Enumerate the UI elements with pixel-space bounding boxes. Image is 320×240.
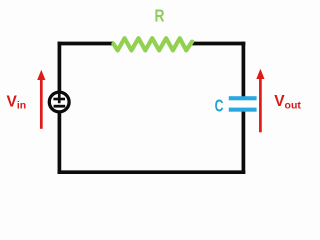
resistor R [113, 38, 192, 50]
wire top-left segment [58, 42, 114, 46]
capacitor C [229, 96, 257, 112]
wire left upper segment [58, 42, 62, 93]
Vin arrow [37, 70, 45, 129]
svg-text:R: R [155, 6, 165, 26]
wire top-right segment [191, 42, 246, 46]
wire bottom segment [58, 170, 246, 174]
wire right lower segment [242, 109, 246, 174]
svg-text:Vout: Vout [274, 93, 301, 111]
voltage source V1 [49, 92, 69, 112]
Vout arrow [256, 69, 264, 133]
svg-text:C: C [215, 96, 224, 116]
wire right upper segment [242, 42, 246, 97]
svg-text:Vin: Vin [7, 93, 27, 111]
wire left lower segment [58, 111, 62, 174]
